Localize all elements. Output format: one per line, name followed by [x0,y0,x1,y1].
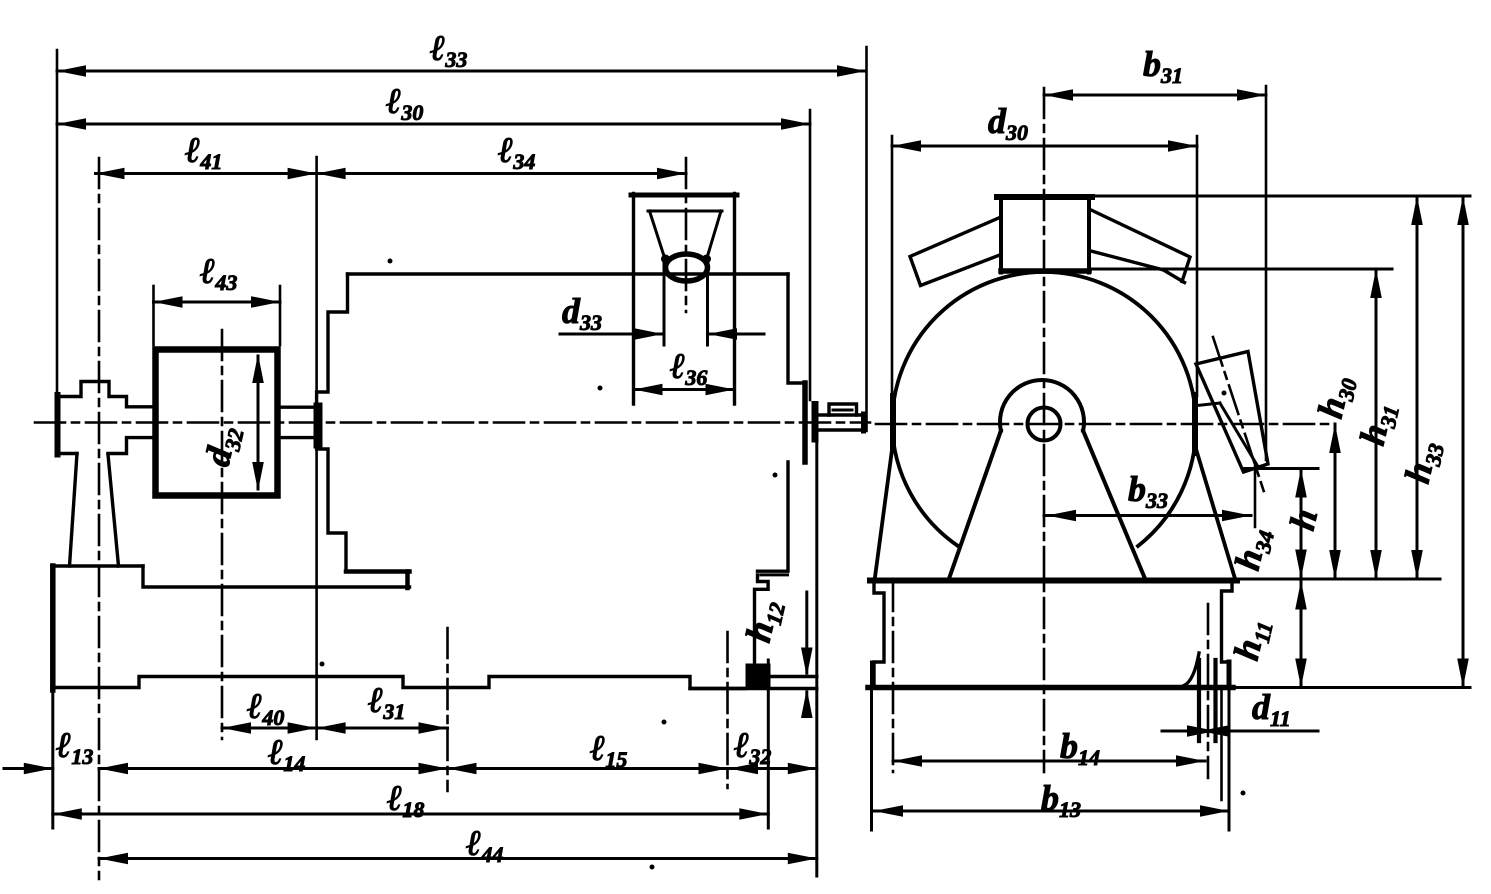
dimension h [1334,424,1337,579]
dimension h11 [1300,581,1303,688]
box ellipse (bold) [666,254,708,281]
pedestal legs [70,454,78,567]
reference line h34 [1244,467,1319,470]
main horizontal centerline (shaft axis) [35,421,870,424]
dimension b14 [893,760,1205,763]
dimension b31 [1044,94,1266,97]
dimension h30 [1375,269,1378,579]
dimension h34 [1300,469,1303,579]
dimension d30 [892,145,1197,148]
coupling half (bold rect) [156,350,278,496]
bearing bracket arch [1000,380,1084,431]
dimension l41 [96,172,317,175]
dimension l31 [317,727,448,730]
dimension l32 [729,767,817,770]
right lifting flap [1089,209,1190,282]
base line thin extension [1237,578,1440,581]
tilted box axis [1213,337,1264,491]
dimension l40 [222,727,317,730]
dimension d11 [1162,730,1216,733]
bearing pedestal axis (dash-dot) [98,158,101,879]
box funnel detail [648,211,722,345]
dimension l18 [53,813,769,816]
dimension h12 [805,592,808,673]
top terminal box (front view) [997,194,1092,200]
left bearing boss (bold) [314,403,323,449]
dimension l30 [57,123,810,126]
shaft circle [1028,408,1061,441]
frame right face [788,274,803,383]
anchor bolt [1197,660,1201,741]
dimension l43 coupling length [154,301,281,304]
reference line top (box top extended) [1092,195,1470,198]
dimension l34 [317,172,686,175]
base line (bold) [870,578,1237,584]
dimension b13 [874,810,1229,813]
frame circle (front view) [892,272,1196,424]
reference line frame top [1089,268,1392,271]
dimension l14 [99,767,448,770]
dimension l33 overall length [57,70,866,73]
dimension l36 [634,388,735,391]
bedplate left edge (bold) [50,566,56,690]
side terminal box (tilted) [1196,352,1268,473]
terminal box on frame (side view) [631,193,737,198]
dimension h33 [1462,196,1465,688]
scan specks [320,259,1246,870]
dimension l15 [448,767,728,770]
dimension d33 [560,333,663,336]
frame legs [875,446,893,579]
dimension l13 [4,767,53,770]
right shaft extension with collar and key [812,401,819,443]
bedplate (front view) [874,581,884,687]
motor frame outline (side view) [317,274,348,403]
bedplate rails (side view bottom) [53,677,746,689]
left foot pad (bold) [346,569,410,574]
dimension d32 coupling diameter (vertical, inside) [257,356,260,489]
outboard bearing pedestal [58,382,153,407]
shaft between coupling and frame [278,406,315,409]
dimension h31 [1416,196,1419,579]
dimension l44 [99,857,817,860]
bold side ticks on circle [890,396,896,450]
dimension b33 [1044,514,1251,517]
box centerline [685,158,688,312]
coupling centerline [221,330,224,739]
rail pad under right foot (bold) [746,664,771,688]
left lifting flap [910,217,1001,286]
extension lines bottom [446,628,449,791]
front view vertical centerline [1043,88,1046,772]
bottom line extension [1233,686,1470,689]
